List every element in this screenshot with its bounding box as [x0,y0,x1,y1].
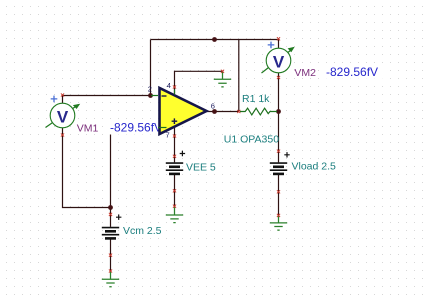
terminal mark Vload bottom [277,190,280,193]
wire load node down to Vload battery [278,112,280,163]
voltmeter VM2 circle [266,48,291,73]
battery Vload plus mark [284,152,289,157]
wire VEE battery to ground [174,175,176,206]
node Vcm junction [108,205,113,210]
terminal mark Vload ground [277,214,280,217]
op-amp noninverting input green pin segment [158,127,167,129]
wire Vcm battery to ground [110,240,112,272]
wire VM1 bottom down and right to Vcm node [63,128,111,208]
terminal mark Vload top [277,150,280,153]
op-amp V- pin green tip [174,90,176,95]
battery VEE plus mark [180,151,185,156]
svg-text:VEE 5: VEE 5 [186,161,216,173]
terminal mark R1 right [277,110,280,113]
svg-text:-829.56fV: -829.56fV [326,65,378,79]
terminal mark op-amp V- pin [173,85,176,88]
voltmeter VM1 circle [50,103,75,128]
node inverting input junction [148,93,153,98]
wire VM2 top stub [278,40,280,49]
wire op-amp output to R1 left [207,111,239,113]
op-amp minus glyph [162,95,167,97]
svg-text:VM2: VM2 [294,67,316,79]
terminal mark VM1 bottom [61,133,64,136]
voltmeter VM2 plus mark [268,42,275,49]
battery Vcm plus mark [116,215,121,220]
resistor R1 [240,108,277,115]
ground below VEE [166,206,183,222]
ground below Vcm [102,271,119,287]
voltmeter VM2 arrow [262,47,295,73]
op-amp inverting input green pin segment [151,95,158,97]
wire feedback vertical to R1 left [238,40,240,112]
svg-text:V: V [57,108,69,127]
op-amp plus glyph [172,118,178,124]
ground near op-amp V- [214,71,231,87]
svg-text:7: 7 [166,131,170,140]
red terminal marks [61,37,280,272]
terminal mark R1 left [237,110,240,113]
wire left vertical to inverting node [150,40,152,96]
voltmeter VM1 plus mark [51,96,58,103]
wire VM1 top to inverting node [63,96,151,104]
node junction dot on top feedback wire [212,37,217,42]
terminal mark VM2 bottom [277,76,280,79]
svg-text:U1 OPA350: U1 OPA350 [224,133,279,145]
svg-text:-829.56fV: -829.56fV [110,121,162,135]
wire VM2 bottom to load node [278,73,280,112]
voltmeter VM1 arrow [46,104,81,128]
ground below Vload [270,215,287,230]
terminal mark inverting node [149,94,152,97]
terminal mark Vcm ground [109,269,112,272]
terminal mark VM1 top [61,93,64,96]
terminal mark VEE top [173,155,176,158]
wire Vcm node to Vcm battery [110,208,112,227]
battery VEE [166,163,183,174]
svg-text:R1 1k: R1 1k [242,93,270,105]
terminal mark Vcm top [109,213,112,216]
battery Vload [270,163,287,174]
terminal mark ground op-amp [221,70,224,73]
value label VM1 white box [107,120,163,135]
svg-text:Vload 2.5: Vload 2.5 [292,161,337,173]
wire noninverting input horizontal and vertical to Vcm node [111,128,159,208]
svg-text:VM1: VM1 [77,123,99,135]
svg-text:2: 2 [148,85,152,94]
node load junction R1 right [276,109,281,114]
svg-text:V: V [273,53,285,72]
terminal mark op-amp V+ pin [173,134,176,137]
wire top feedback horizontal [151,39,279,41]
svg-text:Vcm 2.5: Vcm 2.5 [123,225,162,237]
terminal mark VM2 top [277,37,280,40]
node op-amp output junction [212,109,217,114]
wire op-amp V- pin stub to top then right to ground [175,71,223,93]
terminal mark VEE ground [173,205,176,208]
wire op-amp V+ pin stub down to VEE battery [174,127,176,162]
op-amp U1 triangle [160,88,207,134]
svg-text:4: 4 [167,81,171,90]
svg-text:6: 6 [211,102,215,111]
wire Vload battery to ground [278,175,280,216]
value label VM2 white box [324,64,384,79]
terminal mark VEE bottom [173,189,176,192]
battery Vcm [102,228,119,239]
terminal mark Vcm bottom [109,254,112,257]
